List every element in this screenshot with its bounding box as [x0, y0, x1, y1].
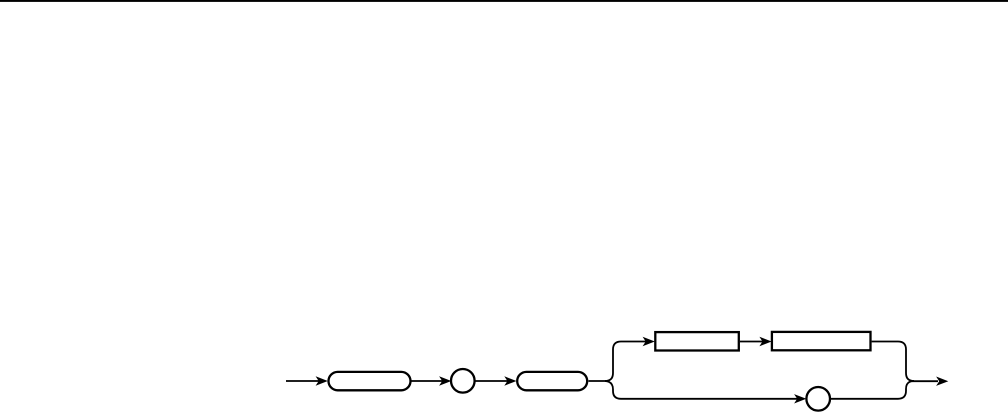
rectangle box 1 [655, 332, 739, 350]
pill box 1 [329, 372, 411, 390]
wire: pill1 to circle1 [412, 380, 448, 382]
page top rule [0, 0, 1008, 2]
arrowhead into circle1 [439, 376, 451, 385]
rectangle box 2 [772, 332, 871, 350]
pill box 2 [517, 372, 587, 390]
wire: rect1 to rect2 [740, 341, 768, 343]
wire: upper branch right connector [872, 342, 914, 382]
wire: circle1 to pill2 [475, 380, 513, 382]
arrowhead into pill2 [504, 376, 516, 385]
arrowhead into rect1 [643, 337, 655, 346]
arrowhead into rect2 [759, 337, 771, 346]
wire: upper branch left connector [605, 342, 651, 382]
circle terminal 2 [806, 387, 830, 411]
wire: circle2 to merge junction [830, 381, 914, 399]
wire: exit segment [912, 380, 938, 382]
circle terminal 1 [451, 369, 475, 393]
wire: pill2 to split junction [589, 380, 607, 382]
wire: lower branch left connector [605, 381, 802, 399]
arrowhead into pill1 [316, 376, 328, 385]
arrowhead at exit [936, 377, 948, 386]
arrowhead into circle2 [794, 394, 806, 403]
wire: entry segment [286, 380, 324, 382]
